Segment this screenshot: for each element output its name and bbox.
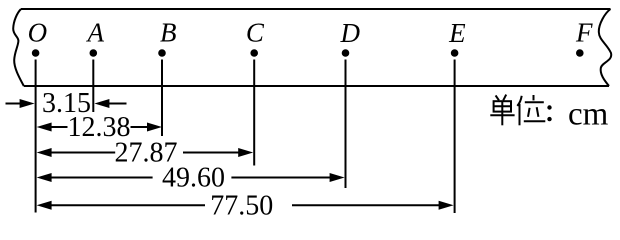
extension line O [35, 60, 37, 213]
row1 right stem [108, 103, 127, 105]
svg-text:O: O [28, 18, 48, 48]
row5 right arrowhead [439, 201, 454, 210]
unit note: hanzi DAN (单) [490, 95, 514, 126]
unit note: fullwidth colon [547, 105, 551, 109]
row1 left arrowhead (points right into O line) [20, 99, 35, 108]
tape bottom edge [24, 85, 609, 87]
svg-text:49.60: 49.60 [162, 162, 225, 193]
row1 left stem [6, 103, 22, 105]
dimension row 3: 27.87 [37, 137, 254, 168]
svg-text:cm: cm [568, 97, 609, 133]
svg-text:A: A [86, 18, 105, 48]
svg-text:D: D [340, 18, 361, 48]
svg-text:F: F [575, 17, 593, 47]
dot E [451, 49, 459, 57]
extension line A [92, 60, 94, 113]
row2 right arrowhead [147, 123, 162, 132]
row4 right stem [231, 177, 331, 179]
dot B [158, 49, 166, 57]
row3 left arrowhead [37, 148, 52, 157]
row5 right stem [292, 204, 441, 206]
dimension row 5: 77.50 [37, 190, 454, 221]
row1 right arrowhead (points left into A line) [94, 99, 109, 108]
svg-text:E: E [448, 18, 466, 48]
row5 left arrowhead [37, 201, 52, 210]
svg-text:B: B [160, 18, 177, 48]
extension line D [345, 60, 347, 189]
dimension row 1: 3.15 outside arrows [6, 88, 127, 119]
row3 right stem [183, 152, 240, 154]
row3 left stem [50, 152, 115, 154]
row2 left stem [50, 126, 68, 128]
row4 right arrowhead [330, 173, 345, 182]
dot A [90, 49, 98, 57]
row4 left stem [50, 177, 153, 179]
extension line C [253, 60, 255, 166]
tape right torn edge [599, 9, 611, 86]
row3 right arrowhead [238, 148, 253, 157]
dimension row 4: 49.60 [37, 162, 345, 193]
dot O [32, 49, 40, 57]
dot F [576, 49, 584, 57]
svg-text:77.50: 77.50 [210, 190, 273, 221]
unit note: hanzi WEI (位) [517, 95, 545, 125]
row2 right stem [131, 126, 149, 128]
extension line B [161, 60, 163, 137]
dot C [250, 49, 258, 57]
extension line E [454, 60, 456, 214]
tape top edge [21, 8, 611, 10]
svg-text:C: C [246, 18, 265, 48]
tape left torn edge [13, 9, 24, 86]
row5 left stem [50, 204, 205, 206]
dimension row 2: 12.38 [37, 112, 162, 143]
dot D [342, 49, 350, 57]
row2 left arrowhead [37, 123, 52, 132]
row4 left arrowhead [37, 173, 52, 182]
